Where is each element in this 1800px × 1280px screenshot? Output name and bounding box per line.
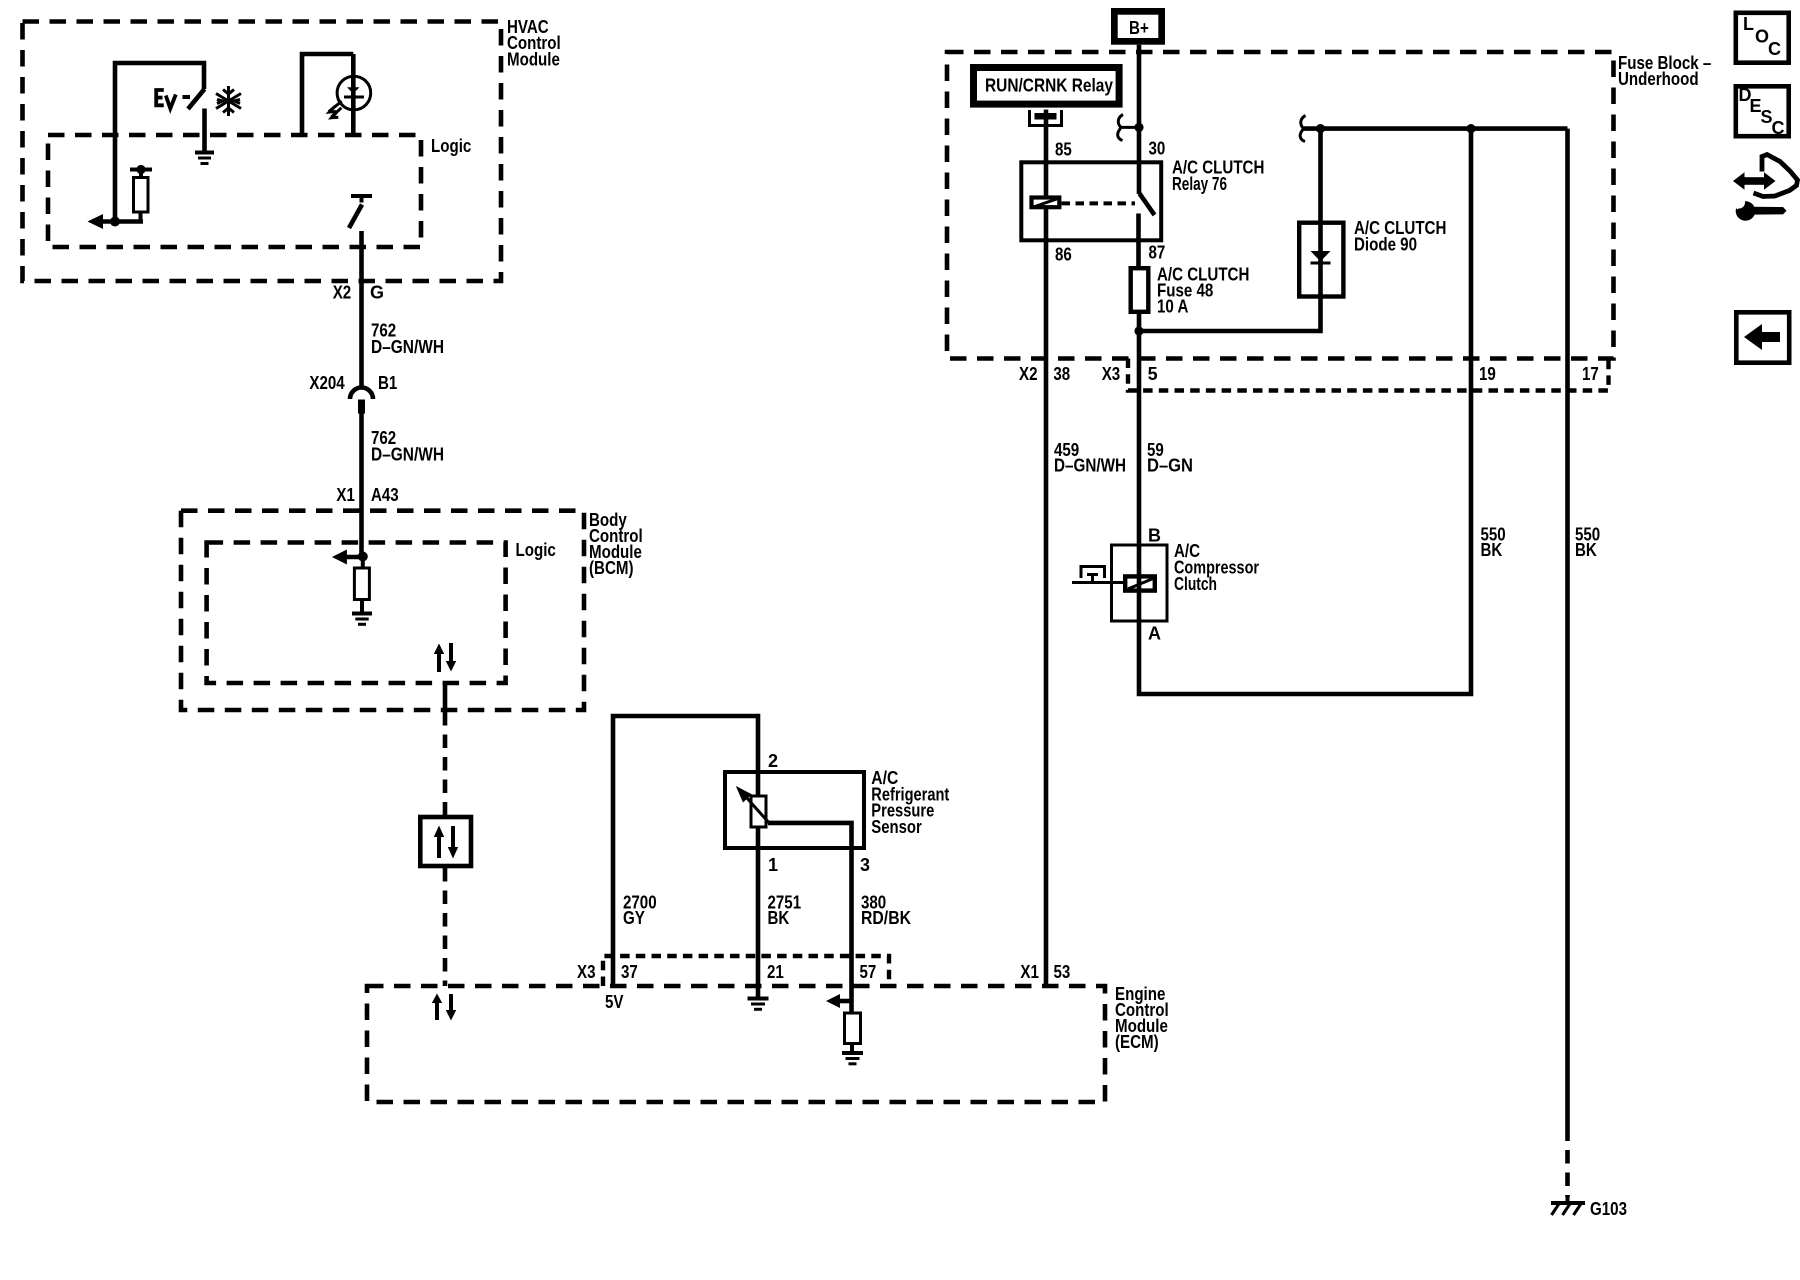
serial data arrows (ECM) — [432, 994, 456, 1021]
svg-text:BK: BK — [768, 908, 790, 928]
svg-text:2: 2 — [768, 751, 778, 771]
connector X2 38 labels — [1019, 364, 1070, 384]
node: fuse-diode junction — [1134, 326, 1143, 335]
svg-text:57: 57 — [860, 962, 877, 982]
serial data arrows (BCM) — [434, 643, 456, 672]
HVAC Logic box — [48, 135, 421, 247]
terminal (pin 30 feed) — [1118, 115, 1144, 141]
wire label 459 D-GN/WH — [1054, 440, 1126, 476]
svg-text:G: G — [370, 283, 384, 303]
svg-text:RD/BK: RD/BK — [861, 908, 911, 928]
Fuse Block label — [1618, 53, 1711, 89]
wire: resistor to arrow — [101, 219, 143, 224]
pin X1 53 — [1020, 962, 1070, 982]
wire: LED loop — [302, 54, 353, 136]
switch (HVAC logic output) — [349, 196, 372, 228]
connector X204 B1 — [309, 373, 397, 414]
node: pin19-bus junction — [1466, 124, 1475, 133]
svg-text:G103: G103 — [1590, 1199, 1627, 1219]
wire: to X2 pin G — [359, 231, 364, 387]
svg-text:Sensor: Sensor — [871, 817, 922, 837]
svg-text:87: 87 — [1149, 243, 1166, 263]
wire label 550 BK (pin 19) — [1481, 525, 1506, 560]
A/C CLUTCH Relay 76 box — [1021, 162, 1161, 240]
svg-text:30: 30 — [1149, 139, 1166, 159]
svg-text:BK: BK — [1481, 540, 1503, 560]
label Ev — [156, 90, 176, 109]
svg-text:X3: X3 — [1102, 364, 1121, 384]
LOC button — [1736, 13, 1789, 63]
fuse A/C CLUTCH Fuse 48 — [1131, 268, 1149, 312]
svg-text:B: B — [1148, 526, 1161, 546]
svg-text:10 A: 10 A — [1157, 297, 1188, 317]
serial data arrows (link box) — [434, 826, 458, 859]
connector X3 (fuse block) dotted — [1128, 359, 1609, 391]
svg-text:Logic: Logic — [431, 136, 471, 156]
svg-text:D–GN/WH: D–GN/WH — [371, 445, 444, 465]
wire: X204 to BCM — [359, 414, 364, 557]
svg-text:86: 86 — [1055, 245, 1072, 265]
vehicle navigate icon — [1727, 155, 1798, 221]
svg-text:5: 5 — [1148, 364, 1158, 384]
svg-text:L: L — [1743, 14, 1754, 34]
wire: junction to diode — [1139, 129, 1321, 331]
relay contact blade — [1140, 194, 1155, 216]
wire: switch to ground — [202, 109, 207, 151]
wire label 762 D-GN/WH (upper) — [371, 321, 444, 358]
pin X1 A43 — [336, 485, 398, 505]
wire label 550 BK (pin 17) — [1575, 525, 1600, 560]
wire: BCM to data link (dashed) — [443, 712, 448, 817]
wire: RUN/CRNK to relay coil — [1044, 120, 1049, 198]
HVAC Control Module box — [23, 22, 502, 282]
wire label 762 D-GN/WH (lower) — [371, 428, 444, 465]
RUN/CRNK Relay box — [974, 68, 1120, 105]
svg-text:X2: X2 — [333, 283, 352, 303]
fuse label — [1157, 265, 1249, 317]
resistor (HVAC logic) — [130, 165, 152, 222]
svg-text:B+: B+ — [1129, 18, 1149, 38]
svg-text:5V: 5V — [605, 992, 624, 1012]
sensor label — [871, 768, 949, 837]
svg-text:(BCM): (BCM) — [589, 558, 634, 578]
svg-text:A: A — [1148, 624, 1161, 644]
wire label 380 RD/BK — [861, 893, 911, 929]
Fuse Block - Underhood box — [947, 52, 1614, 359]
wire label 2751 BK — [768, 893, 802, 929]
svg-text:D–GN/WH: D–GN/WH — [371, 337, 444, 357]
A/C CLUTCH Diode 90 box — [1299, 223, 1343, 297]
variable resistor (sensor) — [736, 786, 769, 827]
ground (ECM pin 21) — [748, 986, 769, 1009]
wire: B+ to relay pin 30 — [1137, 45, 1142, 194]
svg-text:D–GN/WH: D–GN/WH — [1054, 456, 1126, 476]
svg-text:37: 37 — [621, 962, 638, 982]
ground bus (fuse block top) — [1302, 126, 1568, 131]
LED indicator — [329, 54, 371, 136]
arrow (BCM input) — [332, 550, 363, 565]
node: diode-bus junction — [1316, 124, 1325, 133]
relay coil-contact dashed link — [1062, 201, 1136, 205]
snowflake icon — [216, 86, 241, 116]
wire: sensor pin 3 to ECM — [768, 823, 852, 986]
svg-text:X2: X2 — [1019, 364, 1038, 384]
back button — [1736, 312, 1789, 362]
wire label 2700 GY — [623, 893, 657, 929]
clutch coil — [1125, 576, 1155, 590]
svg-text:B1: B1 — [378, 373, 397, 393]
wire label 59 D-GN — [1147, 440, 1193, 476]
svg-text:Underhood: Underhood — [1618, 69, 1699, 89]
relay label — [1172, 158, 1264, 195]
relay coil — [1032, 198, 1061, 208]
svg-text:Module: Module — [507, 50, 560, 70]
svg-text:38: 38 — [1053, 364, 1070, 384]
wire: G103 dashed tail — [1565, 1150, 1570, 1197]
ECM label — [1115, 984, 1169, 1052]
A/C Refrigerant Pressure Sensor box — [725, 772, 864, 848]
node: junction dot — [110, 217, 120, 227]
wire: bus to pin 17 / G103 — [1565, 129, 1570, 1141]
connector X3 (ECM) dotted — [603, 956, 889, 986]
ground G103 — [1551, 1195, 1585, 1215]
svg-text:21: 21 — [767, 962, 784, 982]
svg-text:GY: GY — [623, 908, 645, 928]
pin X2 G — [333, 283, 384, 303]
wire: sensor pin 1 to ECM — [756, 827, 761, 986]
wire: Ev switch loop — [115, 63, 204, 222]
ground (HVAC switch) — [195, 153, 214, 164]
switch Ev dash link — [183, 95, 191, 99]
wire: 5V feed (sensor pin 2 loop) — [613, 716, 758, 986]
A/C Compressor Clutch box — [1112, 545, 1168, 621]
svg-text:BK: BK — [1575, 540, 1597, 560]
resistor (BCM) — [354, 557, 369, 613]
ground (BCM) — [352, 614, 372, 625]
RUN/CRNK relay output terminal — [1030, 110, 1062, 126]
svg-text:17: 17 — [1582, 364, 1599, 384]
arrow (logic output, left) — [88, 214, 104, 229]
svg-text:X1: X1 — [336, 485, 355, 505]
clutch mechanical link — [1072, 567, 1123, 584]
Body Control Module box — [181, 511, 584, 710]
wire: pin 87 stub — [1136, 214, 1141, 269]
svg-text:O: O — [1755, 27, 1769, 47]
svg-text:3: 3 — [860, 855, 870, 875]
svg-text:X1: X1 — [1020, 962, 1039, 982]
svg-text:19: 19 — [1479, 364, 1496, 384]
wire: data link to ECM (dashed) — [443, 868, 448, 986]
BCM label — [589, 510, 643, 578]
arrow + resistor + ground (ECM pin 57) — [826, 986, 863, 1064]
wire: fuse to clutch (59 circuit) + return to pin 19 — [1139, 129, 1471, 694]
Engine Control Module box — [367, 986, 1105, 1102]
clutch label — [1174, 541, 1259, 594]
svg-text:Relay 76: Relay 76 — [1172, 174, 1227, 194]
X3 row labels — [577, 962, 876, 982]
svg-text:C: C — [1772, 118, 1785, 138]
BCM Logic box — [207, 543, 506, 684]
svg-text:C: C — [1768, 39, 1781, 59]
data link connector box — [420, 817, 471, 866]
diode label — [1354, 218, 1446, 255]
terminal (ground bus) — [1300, 116, 1305, 142]
wire: relay 86 to ECM 53 (459 circuit) — [1044, 207, 1049, 986]
wire: BCM logic to BCM edge — [443, 683, 448, 710]
svg-text:D–GN: D–GN — [1147, 456, 1193, 476]
svg-text:85: 85 — [1055, 140, 1072, 160]
DESC button — [1736, 85, 1789, 138]
HVAC Control Module label — [507, 17, 561, 70]
svg-text:(ECM): (ECM) — [1115, 1032, 1159, 1052]
svg-text:RUN/CRNK Relay: RUN/CRNK Relay — [985, 76, 1113, 96]
svg-text:1: 1 — [768, 855, 778, 875]
X3 row labels — [1102, 364, 1599, 384]
node: BCM input junction — [358, 552, 368, 562]
svg-text:53: 53 — [1054, 962, 1071, 982]
svg-text:X3: X3 — [577, 962, 596, 982]
svg-text:Logic: Logic — [516, 540, 556, 560]
svg-text:Diode 90: Diode 90 — [1354, 235, 1417, 255]
svg-text:X204: X204 — [309, 373, 344, 393]
diode 90 — [1311, 251, 1331, 263]
svg-text:Clutch: Clutch — [1174, 574, 1217, 594]
svg-text:A43: A43 — [371, 485, 399, 505]
B+ battery box — [1114, 11, 1161, 41]
switch Ev blade — [188, 89, 205, 109]
